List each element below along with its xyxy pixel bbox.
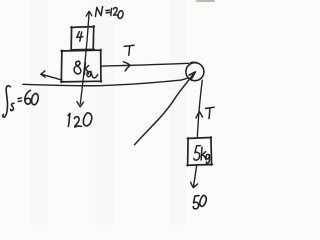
label fs = 60 bbox=[3, 86, 38, 117]
label N = 120 bbox=[95, 7, 123, 19]
rope arrowhead T bbox=[123, 62, 130, 71]
label 120 (weight of stack) bbox=[68, 113, 92, 127]
label T (top) bbox=[124, 45, 134, 55]
small block (4) bbox=[71, 26, 95, 50]
weight arrow of hanging block bbox=[193, 166, 196, 187]
hanging block (5 kg) bbox=[187, 137, 212, 166]
arrowhead N up bbox=[86, 11, 92, 16]
arrowhead weight down bbox=[77, 102, 84, 107]
paper background bbox=[0, 0, 227, 225]
label 8 kg bbox=[74, 61, 98, 78]
normal-force / weight line through blocks bbox=[80, 13, 89, 104]
smudge mark top edge bbox=[196, 0, 215, 2]
label 4 bbox=[77, 32, 83, 42]
pulley bbox=[186, 63, 204, 81]
diagonal rope with arrow to pulley bbox=[135, 74, 194, 145]
rope pulley to hanging block bbox=[197, 80, 202, 137]
arrowhead T up (hanging rope) bbox=[196, 111, 203, 118]
table surface line bbox=[23, 78, 188, 86]
label T (right) bbox=[206, 107, 214, 118]
big block (8 kg) bbox=[61, 50, 102, 83]
rope from block to pulley bbox=[101, 63, 188, 66]
label 50 bbox=[193, 195, 206, 209]
label 5 kg bbox=[194, 146, 210, 164]
friction arrow bbox=[43, 75, 62, 80]
